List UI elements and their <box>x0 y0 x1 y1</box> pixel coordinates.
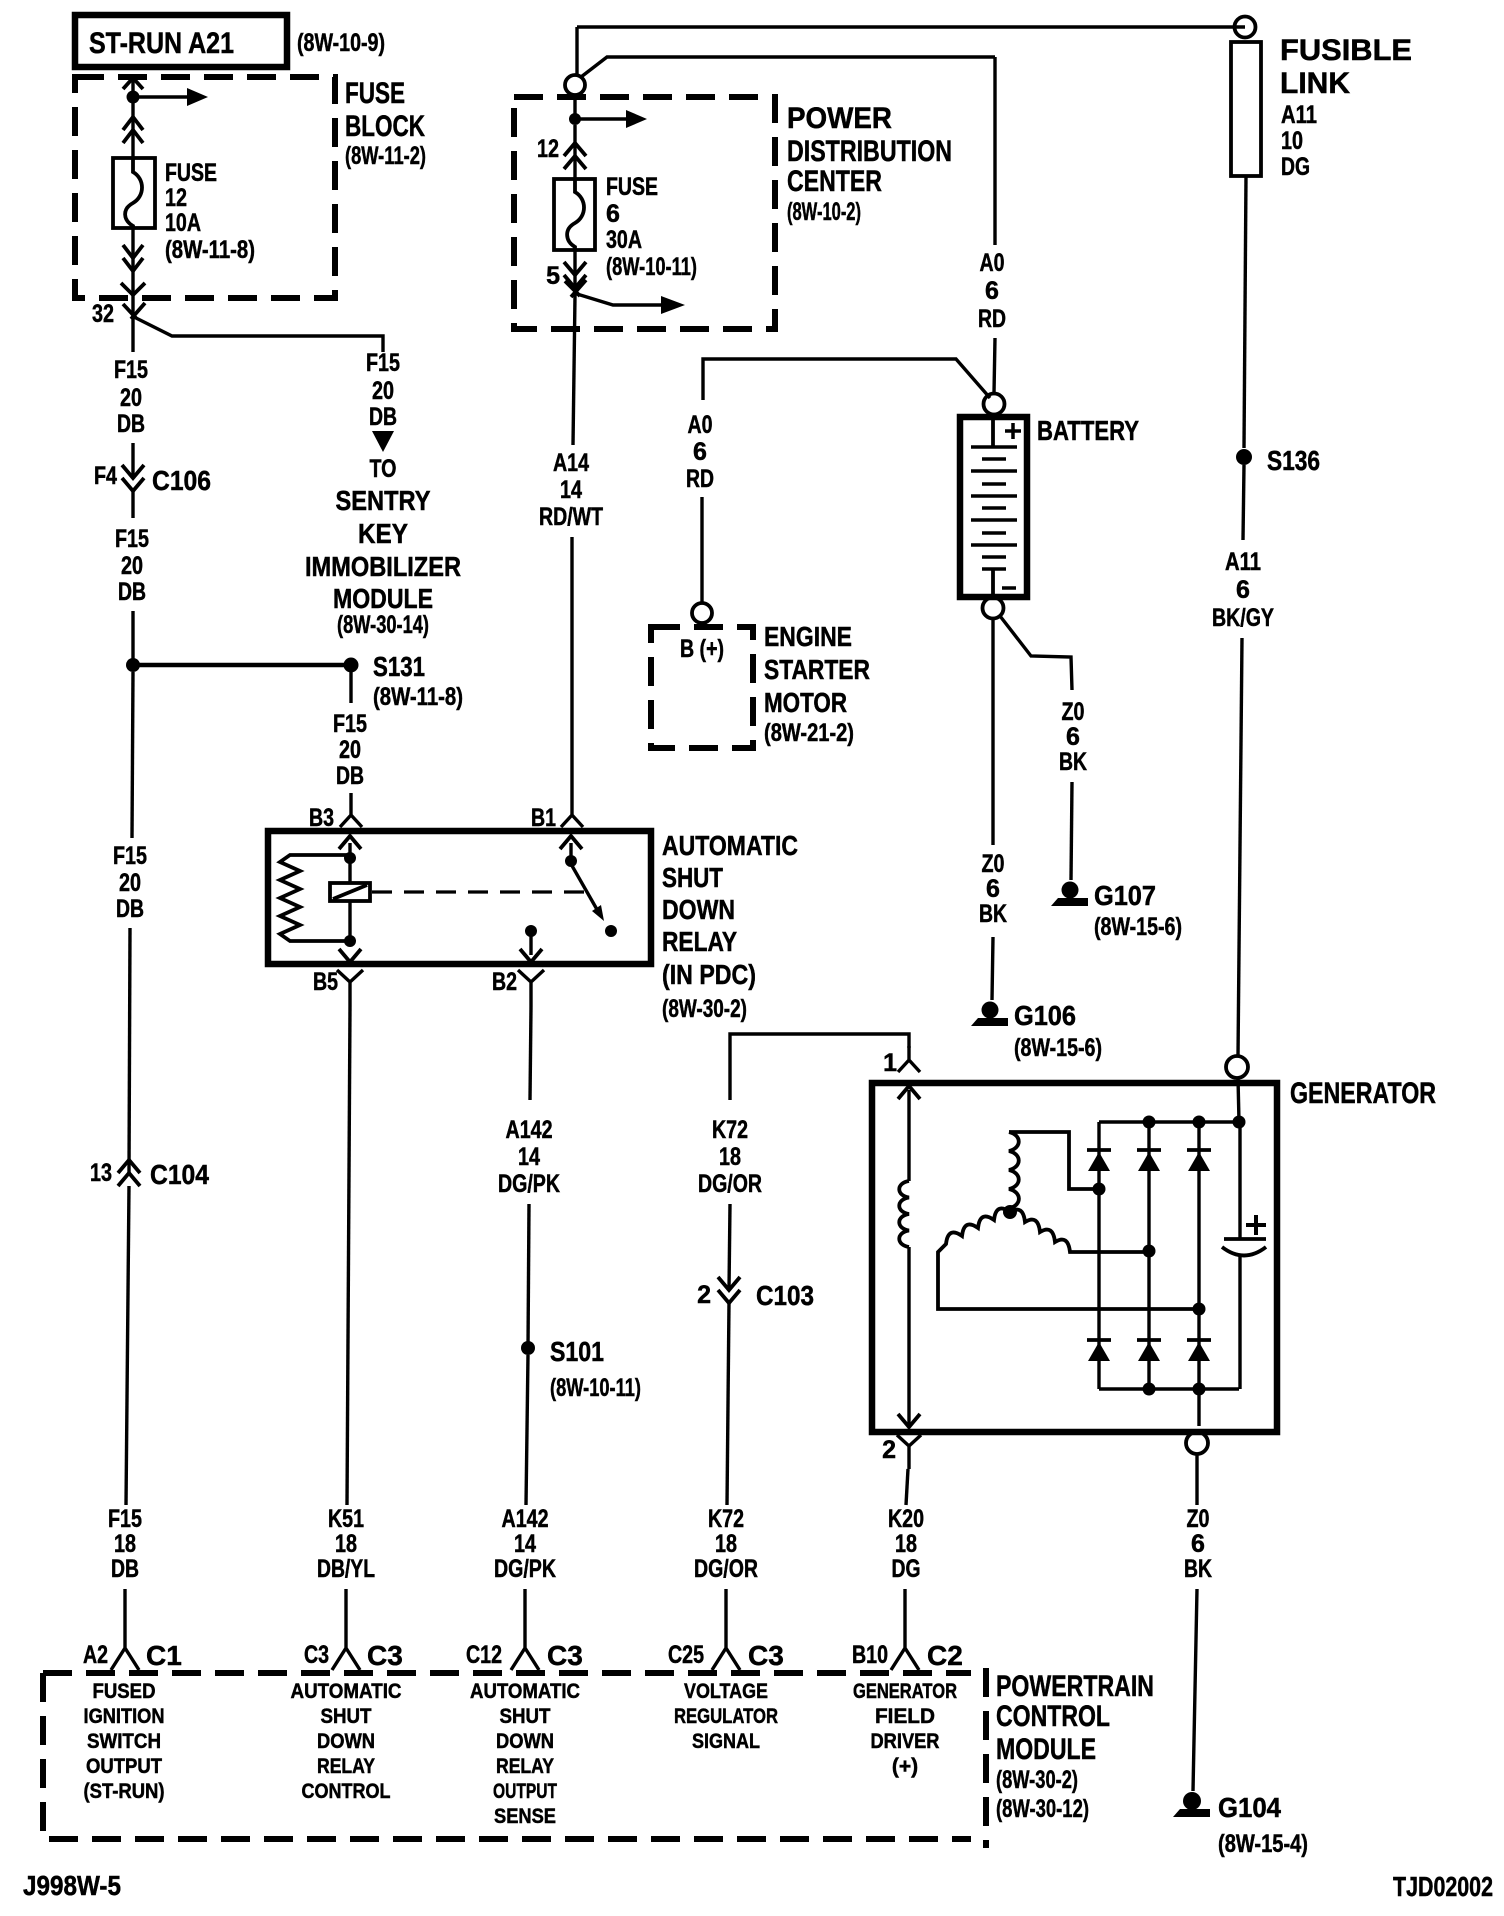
relay K1 automatic shut down relay box <box>268 831 651 964</box>
svg-text:C3: C3 <box>547 1640 583 1671</box>
svg-text:RELAY: RELAY <box>496 1755 554 1778</box>
svg-text:(8W-10-11): (8W-10-11) <box>550 1374 641 1402</box>
wire into PCM pin C25 <box>712 1589 740 1670</box>
svg-text:F15: F15 <box>108 1505 142 1533</box>
svg-text:F4: F4 <box>94 462 117 490</box>
svg-text:F15: F15 <box>366 349 400 377</box>
svg-text:6: 6 <box>985 277 999 305</box>
svg-text:DG/PK: DG/PK <box>498 1170 560 1198</box>
relay B3 entry chevron <box>339 836 361 849</box>
wire fuse 6 to pin 5 <box>573 250 576 296</box>
engine starter motor dashed enclosure <box>651 627 753 748</box>
svg-text:6: 6 <box>606 200 620 228</box>
svg-text:Z0: Z0 <box>1187 1505 1210 1533</box>
relay title <box>662 830 798 1023</box>
svg-text:FUSE: FUSE <box>606 173 658 201</box>
svg-text:BK: BK <box>1184 1555 1212 1583</box>
junction dot B2 <box>525 925 537 937</box>
svg-text:SHUT: SHUT <box>321 1705 372 1728</box>
junction dot coil bottom <box>344 935 356 947</box>
svg-text:20: 20 <box>120 384 142 412</box>
wire out relay pin B2 <box>518 970 544 1007</box>
wire K72 to C103 <box>729 1204 730 1290</box>
svg-text:G104: G104 <box>1218 1792 1281 1823</box>
fuse 6 value label <box>606 173 697 281</box>
svg-text:DB/YL: DB/YL <box>317 1555 375 1583</box>
svg-text:AUTOMATIC: AUTOMATIC <box>662 830 798 861</box>
stator winding phase A (vertical coil) <box>1009 1132 1019 1212</box>
connector C106 double chevron <box>122 465 144 491</box>
svg-text:VOLTAGE: VOLTAGE <box>684 1680 768 1703</box>
svg-text:A11: A11 <box>1281 101 1317 129</box>
wire into relay pin B3 <box>340 793 362 827</box>
svg-text:1: 1 <box>883 1049 897 1077</box>
wire K51 relay B5 to PCM <box>347 1007 350 1505</box>
rectifier top rail <box>1099 1120 1239 1123</box>
diode D5 <box>1137 1340 1161 1361</box>
svg-text:RELAY: RELAY <box>317 1755 375 1778</box>
arrow branch other circuits (pin 5) <box>577 294 685 314</box>
svg-text:A14: A14 <box>553 449 589 477</box>
junction dot switch throw <box>605 925 617 937</box>
junction dot phase B tap <box>1193 1303 1206 1316</box>
svg-text:KEY: KEY <box>358 518 408 549</box>
rectifier bottom rail <box>1099 1387 1239 1390</box>
wire label F15 20 DB (below C106) <box>115 525 149 606</box>
wire label F15 20 DB (left column) <box>113 842 147 923</box>
diode D4 <box>1087 1340 1111 1361</box>
svg-text:(8W-15-4): (8W-15-4) <box>1218 1830 1308 1858</box>
svg-text:BK: BK <box>1059 748 1087 776</box>
svg-text:MODULE: MODULE <box>333 583 433 614</box>
splice name S131 <box>373 651 463 711</box>
svg-text:FUSE: FUSE <box>345 77 405 110</box>
stator neutral junction dot <box>1003 1205 1017 1219</box>
wire label Z0 6 BK (G106) <box>979 850 1007 928</box>
svg-text:12: 12 <box>537 135 559 163</box>
rectifier column 2 wire <box>1147 1122 1150 1389</box>
svg-text:OUTPUT: OUTPUT <box>86 1755 162 1778</box>
wire label K20 18 DG <box>888 1505 924 1583</box>
wire top line to fusible link <box>577 25 1245 28</box>
wire A142 relay B2 down <box>530 1007 531 1100</box>
svg-text:(8W-30-14): (8W-30-14) <box>337 611 429 639</box>
svg-text:RELAY: RELAY <box>662 926 737 957</box>
fuse block exit chevron <box>121 283 145 295</box>
rectifier column 3 wire <box>1197 1122 1200 1426</box>
svg-text:(8W-10-2): (8W-10-2) <box>787 198 861 226</box>
wire into PCM pin A2 <box>111 1589 139 1670</box>
PCM right dashed edge <box>983 1668 989 1848</box>
svg-text:6: 6 <box>986 875 1000 903</box>
svg-text:K72: K72 <box>708 1505 744 1533</box>
wire from ST-RUN into fuse block <box>131 79 134 158</box>
svg-text:B (+): B (+) <box>680 635 724 663</box>
capacitor (noise suppressor) <box>1222 1122 1266 1389</box>
terminal circle generator ground <box>1186 1432 1208 1454</box>
relay B5 exit chevron <box>339 949 361 962</box>
wire coil to bottom dot <box>348 901 351 941</box>
svg-text:S136: S136 <box>1267 445 1320 476</box>
wire label K72 18 DG/OR (upper) <box>698 1116 762 1198</box>
wire stub below S131 <box>349 672 352 703</box>
fusible link body <box>1231 42 1261 176</box>
svg-text:(+): (+) <box>892 1755 918 1778</box>
svg-text:BK: BK <box>979 900 1007 928</box>
wire label F15 20 DB (S131 to B3) <box>333 710 367 790</box>
svg-text:IGNITION: IGNITION <box>84 1705 165 1728</box>
svg-text:F15: F15 <box>333 710 367 738</box>
svg-text:12: 12 <box>165 184 187 212</box>
svg-text:DRIVER: DRIVER <box>871 1730 940 1753</box>
wire out generator pin 2 <box>897 1435 921 1469</box>
svg-text:(8W-11-8): (8W-11-8) <box>165 236 255 264</box>
battery <box>960 417 1027 597</box>
svg-text:18: 18 <box>719 1143 741 1171</box>
svg-text:CENTER: CENTER <box>787 165 882 198</box>
svg-text:(8W-30-12): (8W-30-12) <box>996 1795 1089 1823</box>
svg-text:BLOCK: BLOCK <box>345 110 425 143</box>
splice S101 dot <box>521 1341 535 1355</box>
svg-text:(8W-10-9): (8W-10-9) <box>297 29 385 57</box>
wire into generator pin 1 <box>898 1046 920 1072</box>
ground name G104 <box>1218 1792 1308 1858</box>
wire A142 S101 to PCM <box>526 1355 528 1505</box>
wire A142 to splice S101 <box>528 1204 529 1348</box>
diode D1 <box>1087 1150 1111 1171</box>
wire B3 to coil <box>348 843 351 883</box>
svg-text:POWER: POWER <box>787 102 892 135</box>
svg-text:Z0: Z0 <box>982 850 1005 878</box>
svg-text:SENTRY: SENTRY <box>336 485 431 516</box>
svg-text:S101: S101 <box>550 1336 604 1367</box>
wire C103 to PCM <box>727 1303 729 1505</box>
terminal circle battery positive <box>984 394 1005 415</box>
stator winding phase B (left diagonal coil) <box>938 1208 1199 1309</box>
svg-text:G107: G107 <box>1094 880 1156 911</box>
wire A11 to generator terminal <box>1238 638 1242 1056</box>
svg-text:GENERATOR: GENERATOR <box>853 1680 957 1703</box>
svg-text:18: 18 <box>114 1530 136 1558</box>
diode D2 <box>1137 1150 1161 1171</box>
wire A0 feed to battery <box>993 57 996 245</box>
svg-text:J998W-5: J998W-5 <box>23 1870 121 1901</box>
wire splice link to S131 <box>133 663 351 668</box>
svg-text:A11: A11 <box>1225 548 1261 576</box>
svg-text:A142: A142 <box>506 1116 553 1144</box>
svg-text:(8W-30-2): (8W-30-2) <box>662 995 747 1023</box>
svg-text:OUTPUT: OUTPUT <box>493 1780 557 1803</box>
wire into PCM pin C3 <box>332 1589 360 1670</box>
svg-text:ST-RUN A21: ST-RUN A21 <box>89 27 234 60</box>
terminal circle at PDC feed <box>565 75 585 95</box>
svg-text:DB: DB <box>111 1555 139 1583</box>
svg-text:14: 14 <box>518 1143 540 1171</box>
svg-text:(8W-15-6): (8W-15-6) <box>1014 1034 1102 1062</box>
wire PDC circle to junction <box>573 95 576 119</box>
wire label K72 18 DG/OR (lower) <box>694 1505 758 1583</box>
arrow other circuits (fuse block) <box>133 88 208 106</box>
svg-text:6: 6 <box>1066 723 1080 751</box>
terminal circle starter B+ <box>692 603 712 623</box>
pin 32 splice X <box>123 303 145 319</box>
svg-text:STARTER: STARTER <box>764 654 870 685</box>
svg-text:SWITCH: SWITCH <box>87 1730 161 1753</box>
svg-text:DG/PK: DG/PK <box>494 1555 556 1583</box>
fusible link title <box>1280 34 1412 181</box>
wire A14 down to relay B1 <box>570 537 573 793</box>
wire top line to battery <box>581 57 995 77</box>
wire label A11 6 BK/GY <box>1212 548 1274 632</box>
svg-text:14: 14 <box>514 1530 536 1558</box>
arrow to sentry key immobilizer module <box>372 431 394 452</box>
junction dot at left of S131 <box>126 658 140 672</box>
svg-text:DG: DG <box>1281 153 1310 181</box>
svg-text:20: 20 <box>121 552 143 580</box>
connector C103 double chevron <box>718 1277 740 1303</box>
svg-text:10A: 10A <box>165 209 201 237</box>
connector double chevron below fuse 12 <box>123 245 143 271</box>
svg-text:DB: DB <box>117 410 145 438</box>
relay coil <box>330 883 370 901</box>
diode D3 <box>1187 1150 1211 1171</box>
svg-text:B5: B5 <box>313 968 338 996</box>
wire to ground G104 <box>1193 1589 1197 1791</box>
svg-text:SHUT: SHUT <box>500 1705 551 1728</box>
relay B2 exit chevron <box>520 949 542 962</box>
svg-text:F15: F15 <box>115 525 149 553</box>
svg-text:DB: DB <box>369 403 397 431</box>
svg-text:FUSE: FUSE <box>165 159 217 187</box>
wire C106 down <box>131 491 134 518</box>
svg-text:(8W-11-8): (8W-11-8) <box>373 683 463 711</box>
wire B1 to switch <box>569 843 572 861</box>
terminal circle fusible link top <box>1235 17 1256 38</box>
wire to ground G107 <box>1071 782 1072 880</box>
svg-text:C104: C104 <box>150 1159 209 1190</box>
svg-text:RD/WT: RD/WT <box>539 503 603 531</box>
junction dot fuse block feed <box>127 91 140 104</box>
junction dots top rail <box>1143 1116 1246 1129</box>
generator pin 2 chevron <box>898 1414 920 1427</box>
rectifier column 1 wire <box>1097 1122 1100 1389</box>
svg-text:AUTOMATIC: AUTOMATIC <box>470 1680 580 1703</box>
wire to splice S131 <box>131 611 134 665</box>
splice S136 dot <box>1236 449 1252 465</box>
svg-text:(8W-15-6): (8W-15-6) <box>1094 913 1182 941</box>
powertrain control module dashed enclosure <box>43 1673 971 1839</box>
svg-text:CONTROL: CONTROL <box>996 1700 1110 1733</box>
wire to battery positive <box>994 338 995 393</box>
svg-text:DB: DB <box>336 762 364 790</box>
svg-text:BK/GY: BK/GY <box>1212 604 1274 632</box>
PCM title <box>996 1670 1154 1823</box>
node ST-RUN A21 feed box <box>75 15 287 67</box>
svg-text:GENERATOR: GENERATOR <box>1290 1077 1436 1110</box>
svg-text:C1: C1 <box>146 1640 182 1671</box>
node TO SENTRY KEY IMMOBILIZER MODULE <box>305 455 461 639</box>
generator box <box>872 1083 1277 1432</box>
svg-text:TJD02002: TJD02002 <box>1393 1871 1493 1902</box>
svg-text:(8W-11-2): (8W-11-2) <box>345 142 426 170</box>
svg-text:SHUT: SHUT <box>662 862 723 893</box>
connector double chevron pin 5 <box>564 262 586 288</box>
wire into C104 <box>129 928 130 1173</box>
svg-text:K20: K20 <box>888 1505 924 1533</box>
fuse block title <box>345 77 426 170</box>
terminal circle generator output <box>1226 1056 1248 1078</box>
wire PDC feed riser <box>575 27 578 75</box>
arrow other circuits (PDC) <box>575 110 647 128</box>
wire label A0 6 RD (starter) <box>686 411 714 493</box>
svg-text:K51: K51 <box>328 1505 364 1533</box>
wire label A0 6 RD (battery) <box>978 249 1006 333</box>
junction dot phase A tap <box>1093 1183 1106 1196</box>
fuse block dashed enclosure <box>75 77 335 298</box>
fuse 12 value label <box>165 159 255 264</box>
svg-text:G106: G106 <box>1014 1000 1076 1031</box>
splice name S101 <box>550 1336 641 1402</box>
svg-text:RD: RD <box>978 305 1006 333</box>
node generator field driver <box>853 1680 957 1778</box>
wire fuse 12 to pin 32 <box>131 228 134 318</box>
svg-text:DB: DB <box>118 578 146 606</box>
wire F15 20 DB from pin 32 down <box>131 318 134 352</box>
svg-text:F15: F15 <box>114 356 148 384</box>
svg-text:C106: C106 <box>152 465 211 496</box>
wire label A142 14 DG/PK (upper) <box>498 1116 560 1198</box>
wire fusible link to S136 <box>1244 176 1246 448</box>
svg-text:DG/OR: DG/OR <box>694 1555 758 1583</box>
svg-text:POWERTRAIN: POWERTRAIN <box>996 1670 1154 1703</box>
junction dot switch pivot <box>565 855 577 867</box>
svg-text:B10: B10 <box>852 1641 888 1669</box>
junction dot coil top <box>344 852 356 864</box>
svg-text:C3: C3 <box>367 1640 403 1671</box>
svg-text:6: 6 <box>693 438 707 466</box>
wire branch battery negative to G107 <box>1000 616 1072 690</box>
wire label F15 20 DB (sentry branch) <box>366 349 400 431</box>
wire C104 down to PCM <box>126 1186 129 1505</box>
connector chevron at fuse block top <box>123 78 143 89</box>
svg-text:CONTROL: CONTROL <box>302 1780 391 1803</box>
junction dot in PDC <box>569 113 581 125</box>
svg-text:ENGINE: ENGINE <box>764 621 852 652</box>
ground name G106 <box>1014 1000 1102 1062</box>
wire S136 down <box>1243 465 1244 540</box>
relay B1 entry chevron <box>560 836 582 849</box>
wire label A14 14 RD/WT <box>539 449 603 531</box>
junction dot phase C tap <box>1143 1245 1156 1258</box>
svg-text:C3: C3 <box>748 1640 784 1671</box>
svg-text:IMMOBILIZER: IMMOBILIZER <box>305 551 461 582</box>
svg-text:(8W-30-2): (8W-30-2) <box>996 1766 1078 1794</box>
wire battery negative down <box>991 619 994 845</box>
svg-text:LINK: LINK <box>1280 67 1350 100</box>
svg-text:C2: C2 <box>927 1640 963 1671</box>
wire label K51 18 DB/YL <box>317 1505 375 1583</box>
svg-text:DB: DB <box>116 895 144 923</box>
wire label Z0 6 BK (G104) <box>1184 1505 1212 1583</box>
wire to starter B+ <box>700 497 703 603</box>
rotor field coil <box>899 1181 909 1247</box>
node voltage regulator signal <box>674 1680 778 1753</box>
svg-text:(8W-21-2): (8W-21-2) <box>764 719 854 747</box>
svg-text:Z0: Z0 <box>1062 698 1085 726</box>
svg-text:32: 32 <box>92 300 114 328</box>
svg-text:TO: TO <box>370 455 397 483</box>
svg-text:DOWN: DOWN <box>662 894 735 925</box>
ground G106 <box>971 1002 1008 1027</box>
relay switch arm <box>571 864 604 921</box>
wire into C106 <box>131 443 134 478</box>
node automatic shut down relay output sense <box>470 1680 580 1828</box>
svg-text:MOTOR: MOTOR <box>764 687 847 718</box>
svg-text:2: 2 <box>697 1281 711 1309</box>
wire branch to engine starter motor <box>703 359 990 400</box>
engine starter motor title <box>764 621 870 747</box>
diode D6 <box>1187 1340 1211 1361</box>
wire label F15 20 DB (above C106) <box>114 356 148 438</box>
wire label Z0 6 BK (G107) <box>1059 698 1087 776</box>
wire generator terminal to rail <box>1238 1078 1239 1122</box>
svg-text:K72: K72 <box>712 1116 748 1144</box>
svg-text:(IN PDC): (IN PDC) <box>662 959 756 990</box>
svg-text:AUTOMATIC: AUTOMATIC <box>291 1680 402 1703</box>
svg-text:FIELD: FIELD <box>875 1705 935 1728</box>
wire into relay pin B1 <box>561 793 583 827</box>
svg-text:18: 18 <box>895 1530 917 1558</box>
wire into PCM pin C12 <box>511 1589 539 1670</box>
svg-text:20: 20 <box>339 736 361 764</box>
svg-text:C12: C12 <box>466 1641 502 1669</box>
wire rotor field bottom <box>907 1247 910 1426</box>
pin 5 splice X <box>565 280 586 297</box>
ground name G107 <box>1094 880 1182 941</box>
svg-text:2: 2 <box>882 1436 896 1464</box>
wire to ground G106 <box>992 937 993 1000</box>
svg-text:F15: F15 <box>113 842 147 870</box>
wire label F15 18 DB (to PCM) <box>108 1505 142 1583</box>
stator phase A tap link <box>1009 1132 1099 1189</box>
wire out relay pin B5 <box>337 970 363 1007</box>
svg-text:DG: DG <box>892 1555 921 1583</box>
splice S131 dot <box>344 658 359 673</box>
svg-text:C3: C3 <box>304 1641 329 1669</box>
svg-text:20: 20 <box>119 869 141 897</box>
svg-text:SENSE: SENSE <box>494 1805 556 1828</box>
terminal circle battery negative <box>983 598 1004 619</box>
resistor (relay shunt) <box>280 855 350 941</box>
stator winding phase C (right diagonal coil) <box>1010 1210 1149 1252</box>
ground G104 <box>1173 1792 1210 1817</box>
svg-text:A142: A142 <box>502 1505 549 1533</box>
power distribution center dashed enclosure <box>514 97 775 329</box>
wire K72 generator pin 1 link <box>730 1034 909 1100</box>
svg-text:REGULATOR: REGULATOR <box>674 1705 778 1728</box>
svg-text:(ST-RUN): (ST-RUN) <box>84 1780 165 1803</box>
svg-text:10: 10 <box>1281 127 1303 155</box>
wire branch to sentry key module <box>134 317 383 352</box>
svg-text:B2: B2 <box>492 968 517 996</box>
PDC title <box>787 102 952 226</box>
svg-text:DOWN: DOWN <box>317 1730 375 1753</box>
svg-text:A0: A0 <box>688 411 713 439</box>
svg-text:A2: A2 <box>83 1641 108 1669</box>
connector double chevron pin 12 <box>564 143 586 169</box>
svg-text:6: 6 <box>1191 1530 1205 1558</box>
svg-text:6: 6 <box>1236 576 1250 604</box>
